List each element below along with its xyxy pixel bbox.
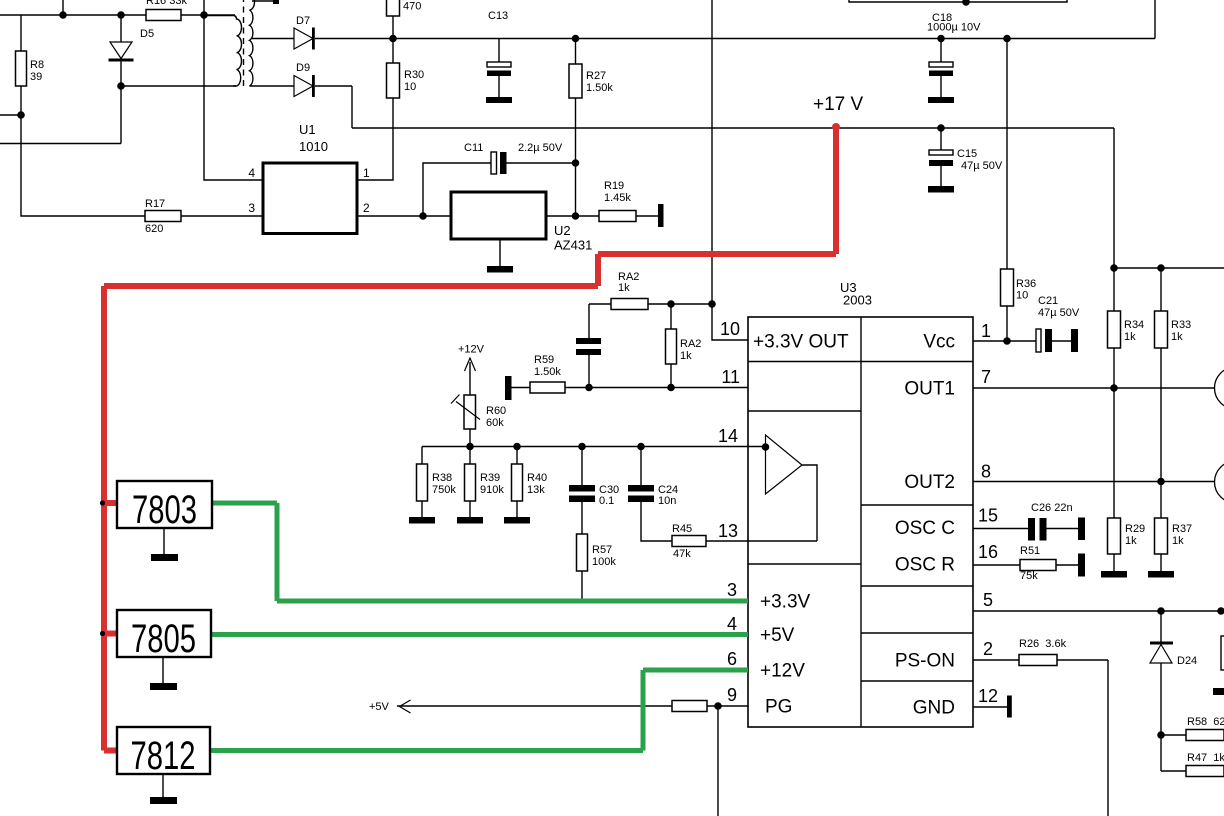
- wire R8 bottom to R17: [21, 86, 145, 216]
- node pin11 RA2v: [668, 384, 674, 390]
- capacitor C36: [576, 338, 601, 388]
- node red 7803: [100, 500, 105, 505]
- resistor R59: [530, 382, 565, 393]
- svg-text:4: 4: [727, 614, 737, 634]
- wire D7 to node: [315, 38, 393, 40]
- svg-text:3: 3: [248, 201, 255, 215]
- IC U3 box: [748, 317, 973, 727]
- diode D24: [1150, 611, 1173, 771]
- wire pin2: [973, 659, 1019, 661]
- ground R19: [658, 204, 664, 227]
- wire D5 branch down-left: [0, 86, 121, 144]
- node y268 x1114: [1111, 265, 1117, 271]
- svg-text:2: 2: [983, 639, 993, 659]
- wire y268 rail: [1114, 267, 1224, 269]
- wire 7812 ground stub: [162, 774, 164, 797]
- svg-text:OUT1: OUT1: [904, 379, 955, 400]
- svg-text:47µ 50V: 47µ 50V: [961, 160, 1003, 172]
- ground R29: [1101, 571, 1127, 578]
- node PG: [715, 703, 721, 709]
- ground pin12 GND: [1007, 696, 1012, 718]
- node RA2h right: [668, 301, 674, 307]
- wire U2 ground stub: [499, 239, 501, 266]
- wire stub x63: [62, 0, 64, 15]
- wire R30 to U1 pin1: [357, 98, 393, 180]
- node x712 y304: [709, 301, 715, 307]
- ground C13: [486, 97, 512, 103]
- ground 7803: [151, 554, 178, 561]
- regulator 7812: [117, 727, 210, 774]
- diode D7: [294, 28, 315, 50]
- node D24 R58: [1158, 732, 1164, 738]
- resistor R17: [145, 211, 181, 222]
- wire U2 out: [546, 215, 599, 217]
- svg-text:R4013k: R4013k: [527, 472, 547, 496]
- svg-text:+12V: +12V: [760, 661, 805, 682]
- svg-text:D24: D24: [1177, 655, 1197, 667]
- svg-text:R26 3.6k: R26 3.6k: [1019, 638, 1067, 650]
- wire +12V to R60: [469, 362, 471, 395]
- ground R59: [505, 376, 512, 400]
- node secondary top: [273, 0, 279, 4]
- node top rail / pin4 riser: [201, 12, 207, 18]
- svg-text:OSC R: OSC R: [895, 555, 955, 576]
- svg-text:+5V: +5V: [760, 625, 795, 646]
- svg-text:1: 1: [363, 166, 370, 180]
- node pin2 C11 branch: [420, 213, 426, 219]
- svg-text:R58 620: R58 620: [1187, 716, 1224, 728]
- wire pin16: [973, 564, 1020, 566]
- resistor R40: [512, 447, 523, 518]
- svg-text:+12V: +12V: [458, 344, 485, 356]
- resistor R37: [1155, 482, 1168, 572]
- node top rail / stub: [60, 12, 66, 18]
- op-amp U2: [451, 192, 546, 239]
- node top rail / D5: [118, 12, 124, 18]
- ground C15: [928, 186, 954, 193]
- wire U1 pin2: [357, 215, 451, 217]
- svg-text:5: 5: [983, 590, 993, 610]
- svg-text:4: 4: [248, 166, 255, 180]
- resistor R30: [387, 63, 400, 98]
- resistor R33: [1155, 268, 1168, 482]
- resistor R16: [146, 10, 181, 21]
- svg-text:1: 1: [981, 321, 991, 341]
- node pin8 R33: [1158, 478, 1164, 484]
- svg-text:16: 16: [978, 542, 998, 562]
- svg-text:12: 12: [978, 686, 998, 706]
- wire PG down: [717, 706, 719, 816]
- wire to R58: [1161, 734, 1186, 736]
- wire secondary top tap: [252, 0, 276, 2]
- svg-text:OUT2: OUT2: [904, 472, 955, 493]
- wire long vertical x712: [711, 0, 713, 304]
- resistor R47: [1186, 766, 1224, 777]
- wire pin12: [973, 706, 1008, 708]
- node x21 y115: [18, 112, 24, 118]
- node top box: [963, 0, 969, 5]
- node pin14 C24: [638, 443, 644, 449]
- svg-text:C2410n: C2410n: [658, 484, 678, 507]
- ground R40: [504, 517, 530, 524]
- arrow PG: [400, 700, 411, 713]
- svg-text:15: 15: [978, 506, 998, 526]
- svg-text:C26 22n: C26 22n: [1031, 502, 1073, 514]
- ground bar right edge: [1213, 688, 1224, 695]
- wire D5 bottom to transformer: [121, 85, 236, 87]
- resistor R39: [465, 447, 476, 518]
- svg-text:7812: 7812: [131, 734, 196, 778]
- svg-text:7803: 7803: [132, 488, 197, 532]
- capacitor C24: [628, 447, 672, 542]
- capacitor C30: [569, 447, 595, 535]
- node pin1 R36: [1004, 338, 1010, 344]
- connector circle pin8: [1215, 461, 1224, 503]
- svg-text:+3.3V: +3.3V: [760, 592, 811, 613]
- wire pin14: [422, 446, 766, 448]
- ground 7812: [150, 797, 177, 804]
- svg-text:14: 14: [718, 426, 738, 446]
- ground R37: [1148, 571, 1174, 578]
- wire secondary to D7: [252, 38, 294, 40]
- svg-text:R839: R839: [30, 59, 44, 83]
- svg-text:R47 1k5: R47 1k5: [1187, 752, 1224, 764]
- svg-text:+5V: +5V: [369, 701, 390, 713]
- svg-text:C11: C11: [464, 142, 483, 154]
- wire PG to U3: [707, 705, 748, 707]
- node +17V rail x941: [938, 125, 944, 131]
- svg-text:Vcc: Vcc: [923, 332, 955, 353]
- wire 470 to R30: [392, 16, 394, 63]
- wire green +12V: [210, 670, 748, 751]
- capacitor C13: [487, 39, 511, 98]
- wire R19 to ground: [636, 215, 658, 217]
- capacitor C21: [973, 329, 1071, 352]
- wire PG: [397, 705, 672, 707]
- svg-text:13: 13: [718, 521, 738, 541]
- wire top box: [849, 0, 1067, 2]
- wire RA2 top net: [648, 304, 748, 340]
- capacitor C26: [1028, 518, 1078, 541]
- wire pin7: [973, 387, 1215, 389]
- node pin5 edge: [1218, 608, 1224, 614]
- wire to R47: [1161, 770, 1186, 772]
- resistor R45: [672, 536, 706, 547]
- op-amp U3 comparator: [766, 435, 803, 494]
- node pin14 R60: [467, 443, 473, 449]
- resistor RA2 horizontal: [611, 299, 648, 310]
- resistor R58: [1186, 730, 1224, 741]
- resistor R8: [16, 51, 27, 86]
- svg-text:10: 10: [720, 319, 740, 339]
- wire RA2h left to C36: [589, 304, 611, 338]
- node pin7 R34: [1111, 385, 1117, 391]
- node pin11 C36: [586, 384, 592, 390]
- resistor R51: [1020, 560, 1078, 571]
- wire rail y38: [393, 0, 1155, 39]
- op-amp U1: [263, 163, 357, 234]
- svg-text:PG: PG: [765, 697, 792, 718]
- node y38 x1007: [1004, 35, 1010, 41]
- connector box right edge: [1221, 636, 1224, 670]
- resistor R34: [1108, 268, 1121, 388]
- wire left edge y115: [0, 114, 21, 116]
- transformer T1 primary: [204, 16, 242, 87]
- svg-text:6: 6: [727, 649, 737, 669]
- node D5 bottom: [118, 83, 124, 89]
- diode D9: [294, 75, 315, 97]
- svg-text:D9: D9: [296, 62, 310, 74]
- svg-text:GND: GND: [913, 698, 955, 719]
- wire 7805 ground stub: [162, 657, 164, 683]
- svg-text:C15: C15: [957, 148, 977, 160]
- svg-text:R6060k: R6060k: [486, 405, 506, 429]
- wire red +17V feed: [104, 128, 836, 751]
- wire D9 to +17V rail: [315, 86, 1114, 268]
- svg-text:2.2µ 50V: 2.2µ 50V: [518, 142, 563, 154]
- transformer T1 secondary: [250, 0, 255, 86]
- svg-text:8: 8: [981, 462, 991, 482]
- node pin5 D24: [1158, 608, 1164, 614]
- node op-amp input: [762, 444, 768, 450]
- resistor R29: [1108, 388, 1121, 571]
- ground R38: [409, 517, 435, 524]
- svg-text:+17 V: +17 V: [813, 94, 864, 115]
- node C11 R27: [572, 160, 578, 166]
- resistor R27: [569, 39, 582, 217]
- svg-text:470: 470: [403, 1, 421, 13]
- arrow +12V: [465, 358, 476, 371]
- node y38 x941: [938, 35, 944, 41]
- wire pin11: [565, 387, 748, 389]
- node red +17V top: [832, 123, 840, 131]
- svg-text:D7: D7: [296, 15, 310, 27]
- wire R17 to U1 pin3: [181, 215, 263, 217]
- node y38 x393: [390, 35, 396, 41]
- svg-text:2: 2: [363, 201, 370, 215]
- wire R8 top: [20, 15, 22, 51]
- wire pin5: [973, 610, 1224, 612]
- resistor R36: [1001, 39, 1014, 342]
- capacitor C18: [929, 39, 953, 98]
- wire pin15: [973, 528, 1028, 530]
- resistor R38: [417, 447, 428, 518]
- ground R51: [1078, 554, 1085, 577]
- wire pin4 riser x204: [204, 0, 263, 180]
- node U2 out: [572, 213, 578, 219]
- rheostat R60: [451, 395, 480, 430]
- capacitor C11: [423, 152, 576, 216]
- node y38 x575: [572, 35, 578, 41]
- node pin14 C30: [579, 443, 585, 449]
- wire green +3.3V: [212, 503, 748, 601]
- svg-text:PS-ON: PS-ON: [895, 651, 955, 672]
- wire op-amp feedback: [748, 465, 817, 541]
- regulator 7803: [117, 481, 212, 528]
- wire pin13: [706, 540, 748, 542]
- svg-text:C13: C13: [488, 10, 508, 22]
- wire red stub 7805: [104, 631, 118, 637]
- connector circle pin7: [1215, 367, 1224, 409]
- resistor PG: [672, 701, 707, 712]
- svg-text:7805: 7805: [131, 617, 196, 661]
- regulator 7805: [117, 610, 211, 657]
- wire pin8: [973, 481, 1215, 483]
- node y268 x1161: [1158, 265, 1164, 271]
- capacitor C15: [929, 128, 953, 186]
- svg-text:7: 7: [981, 367, 991, 387]
- svg-text:D5: D5: [140, 28, 154, 40]
- wire 7803 ground stub: [163, 528, 165, 554]
- wire R60 to pin14: [469, 429, 471, 447]
- node red 7805: [100, 631, 105, 636]
- wire secondary to D9: [253, 85, 294, 87]
- resistor R26: [1019, 655, 1108, 816]
- resistor R19: [599, 211, 636, 222]
- svg-text:9: 9: [727, 685, 737, 705]
- svg-text:11: 11: [721, 367, 740, 387]
- ground C18: [928, 97, 954, 103]
- svg-text:R16 33k: R16 33k: [146, 0, 187, 7]
- svg-text:3: 3: [727, 580, 737, 600]
- ground R39: [457, 517, 483, 524]
- transformer T1 core: [243, 0, 245, 88]
- diode D5: [109, 15, 134, 86]
- ground C26: [1078, 518, 1085, 541]
- wire top rail y15: [0, 14, 235, 16]
- svg-text:OSC C: OSC C: [895, 518, 955, 539]
- resistor RA2 vertical: [666, 304, 677, 388]
- ground 7805: [150, 683, 177, 690]
- wire ground to R59: [512, 387, 531, 389]
- ground U2: [487, 266, 513, 273]
- wire red stub 7803: [104, 500, 118, 506]
- ground C21: [1071, 329, 1078, 352]
- svg-text:+3.3V OUT: +3.3V OUT: [753, 332, 849, 353]
- wire green +5V: [211, 632, 748, 637]
- resistor 470: [387, 0, 400, 16]
- resistor R57: [577, 534, 588, 601]
- node pin14 R40: [514, 443, 520, 449]
